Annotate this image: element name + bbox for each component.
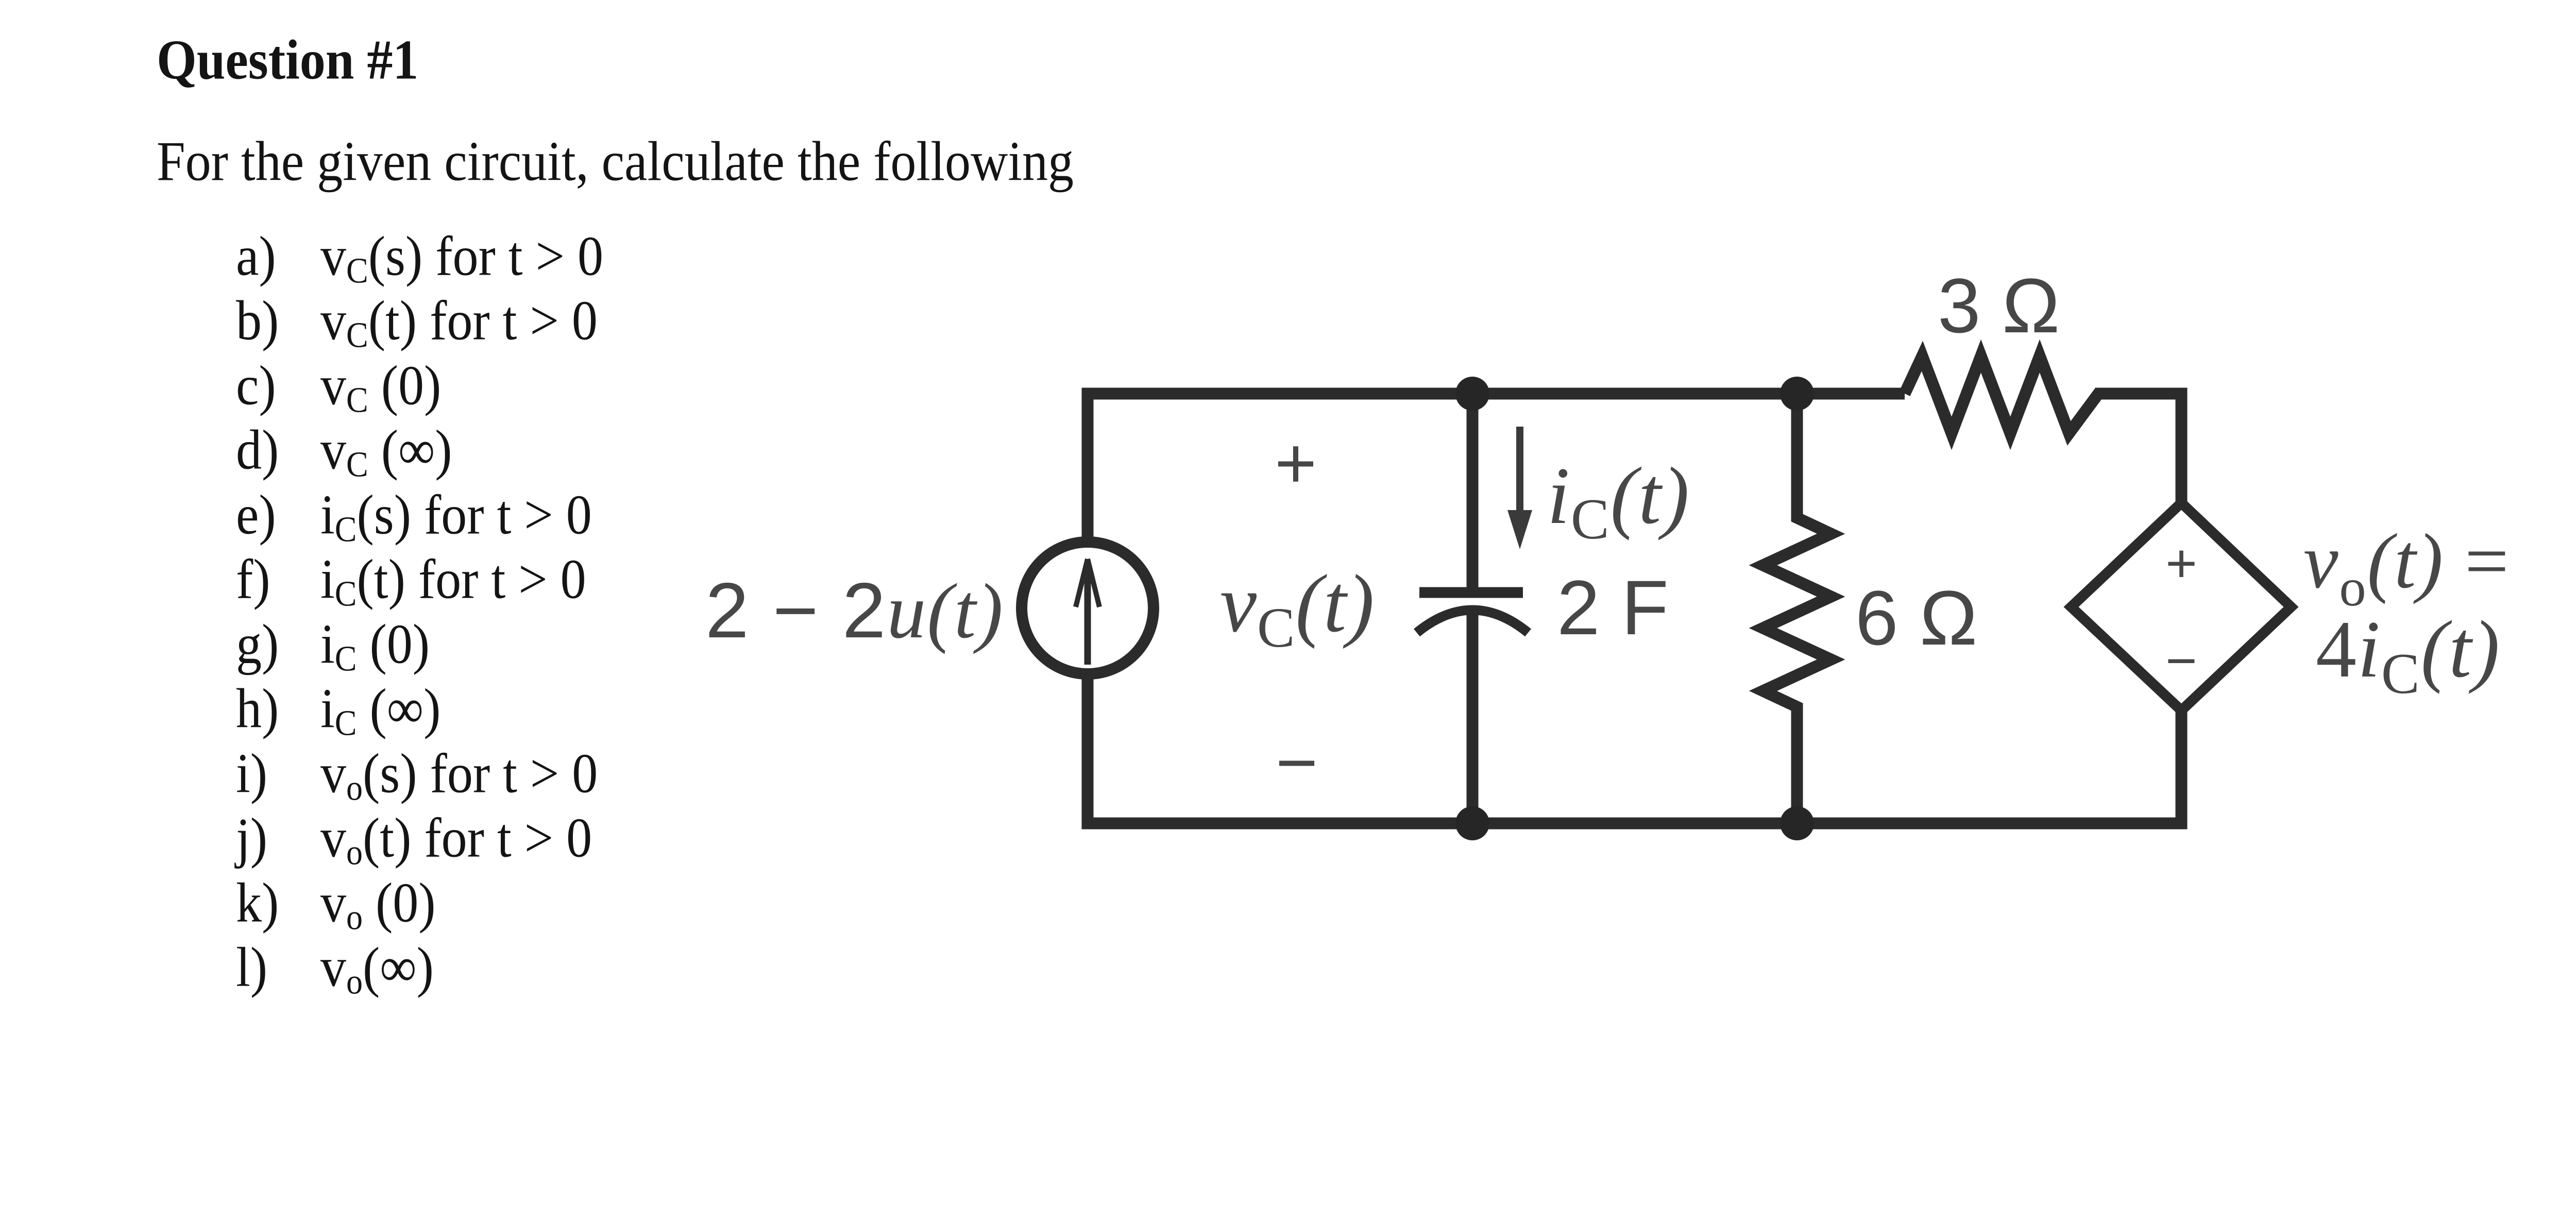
svg-text:−: −: [2165, 631, 2197, 691]
svg-text:3 Ω: 3 Ω: [1938, 262, 2060, 349]
svg-text:vC(t): vC(t): [1220, 557, 1375, 659]
svg-text:+: +: [1275, 422, 1317, 503]
svg-text:−: −: [1276, 722, 1318, 803]
svg-text:6 Ω: 6 Ω: [1855, 574, 1977, 661]
svg-text:2 F: 2 F: [1557, 564, 1669, 651]
svg-text:4iC(t): 4iC(t): [2316, 604, 2501, 706]
svg-text:vo(t) =: vo(t) =: [2303, 518, 2510, 617]
svg-text:+: +: [2165, 533, 2197, 594]
svg-text:iC(t): iC(t): [1547, 451, 1690, 551]
svg-text:2 − 2u(t): 2 − 2u(t): [705, 567, 1004, 654]
